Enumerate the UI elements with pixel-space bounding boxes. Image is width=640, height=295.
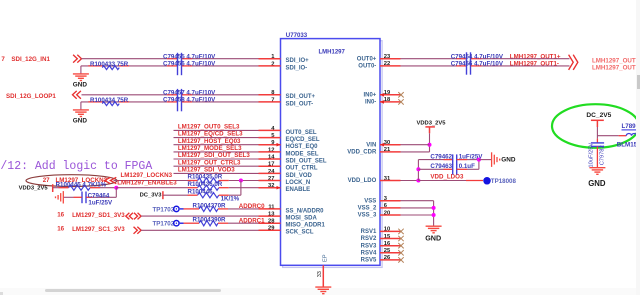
svg-text:LM1297_OUT_CTRL3: LM1297_OUT_CTRL3 bbox=[178, 159, 241, 166]
svg-text:16: 16 bbox=[57, 212, 64, 219]
no-connect pin 15 bbox=[398, 236, 403, 241]
svg-text:9/12: Add logic to FPGA: 9/12: Add logic to FPGA bbox=[0, 160, 152, 173]
wire junction down to capacitor C79464 bbox=[115, 188, 117, 198]
svg-text:R100433 75R: R100433 75R bbox=[90, 61, 129, 68]
pin stub pin 28 bbox=[259, 222, 281, 224]
svg-text:LM1297_HOST_EQ03: LM1297_HOST_EQ03 bbox=[178, 138, 241, 145]
inductor L789 BLM15A ferrite bead bbox=[626, 133, 640, 135]
svg-text:VDD_LDO: VDD_LDO bbox=[348, 178, 377, 184]
wire DC_2V5 to inductor bbox=[597, 135, 618, 137]
no-connect pin 16 bbox=[398, 243, 403, 248]
pin stub pin 14 bbox=[259, 158, 281, 160]
svg-text:EP: EP bbox=[322, 254, 328, 262]
pin stub pin 7 bbox=[259, 101, 281, 103]
pin stub pin 4 bbox=[259, 129, 281, 131]
no-connect pin 26 bbox=[398, 257, 403, 262]
pin stub pin 2 bbox=[259, 65, 281, 67]
svg-text:DC_2V5: DC_2V5 bbox=[586, 112, 611, 119]
wire cap to pin 1 bbox=[192, 58, 259, 60]
svg-text:TP1703: TP1703 bbox=[153, 206, 175, 213]
wire R100445 to junction bbox=[100, 187, 116, 189]
svg-text:TP18008: TP18008 bbox=[491, 178, 517, 185]
svg-text:VSS: VSS bbox=[364, 198, 376, 204]
resistor R100445 4.7K/1% bbox=[69, 185, 91, 190]
input arrow pin 32 bbox=[277, 186, 281, 190]
pin stub pin 22 bbox=[380, 65, 401, 67]
svg-text:SCK_SCL: SCK_SCL bbox=[286, 230, 314, 236]
svg-text:SDI_IO+: SDI_IO+ bbox=[286, 58, 310, 64]
wire LM1297_MODE_SEL3 to pin 12 bbox=[174, 151, 259, 153]
wire LOCKN3 to resistor bbox=[114, 180, 188, 182]
svg-text:R100436 0R: R100436 0R bbox=[188, 181, 223, 188]
svg-text:SDI_12G_LOOP1: SDI_12G_LOOP1 bbox=[6, 93, 56, 100]
ground bbox=[426, 226, 442, 233]
svg-text:IN0-: IN0- bbox=[365, 100, 376, 106]
pin stub pin 26 bbox=[380, 259, 401, 261]
resistor R100434 75R bbox=[102, 102, 119, 106]
svg-text:LMH1297: LMH1297 bbox=[319, 49, 346, 55]
wire ADDRC0 to pin 11 bbox=[228, 208, 259, 210]
svg-text:ENABLE: ENABLE bbox=[286, 187, 311, 193]
capacitor C79458 4.7uF/10V bbox=[167, 101, 178, 103]
pin stub pin 31 bbox=[380, 180, 401, 182]
svg-text:LM1297_SDI_VOD3: LM1297_SDI_VOD3 bbox=[178, 167, 235, 174]
wire cap to pin 2 bbox=[192, 65, 259, 67]
pin stub pin 5 bbox=[259, 137, 281, 139]
pin stub pin 6 bbox=[380, 207, 401, 209]
input arrow pin 30 bbox=[380, 143, 384, 147]
ground bbox=[80, 66, 82, 74]
node LM1297_LOCKN3 circled annotation bbox=[26, 175, 117, 187]
wire LM1297_HOST_EQ03 to pin 9 bbox=[174, 144, 259, 146]
svg-text:VDD_CDR: VDD_CDR bbox=[347, 150, 377, 156]
no-connect pin 19 bbox=[398, 92, 403, 97]
wire SD1 to pin 13 bbox=[141, 215, 258, 217]
svg-text:LOCK_N: LOCK_N bbox=[286, 180, 311, 186]
ground bbox=[589, 168, 605, 175]
resistor R100439 0R bbox=[199, 221, 218, 226]
wire LM1297_OUT0_SEL3 to pin 4 bbox=[174, 129, 259, 131]
svg-text:LM1297_LOCKN3: LM1297_LOCKN3 bbox=[121, 172, 173, 179]
pin stub EP bbox=[322, 265, 324, 287]
wire ADDRC1 to pin 28 bbox=[228, 222, 259, 224]
wire SDI_IO+ row bbox=[82, 58, 168, 60]
input arrow pin 19 bbox=[380, 93, 384, 97]
annotation green ellipse bbox=[552, 104, 639, 148]
svg-text:DC_3V3: DC_3V3 bbox=[140, 192, 163, 198]
svg-text:SDI_OUT_SEL: SDI_OUT_SEL bbox=[286, 158, 327, 164]
pin stub pin 3 bbox=[380, 200, 401, 202]
wire VDD_LDO3 to test point bbox=[418, 180, 466, 182]
svg-text:GND: GND bbox=[588, 179, 606, 188]
wire LM1297_SDI_OUT_SEL3 to pin 14 bbox=[174, 158, 259, 160]
svg-text:OUT0-: OUT0- bbox=[358, 64, 376, 70]
pin stub pin 13 bbox=[259, 215, 281, 217]
svg-text:OUT0+: OUT0+ bbox=[357, 56, 377, 62]
svg-text:R100446: R100446 bbox=[188, 188, 214, 195]
pin stub pin 12 bbox=[259, 151, 281, 153]
svg-text:R1004370R: R1004370R bbox=[193, 202, 227, 209]
wire caps right to gnd bbox=[478, 160, 480, 170]
wire pin 22 to capacitor bbox=[401, 65, 457, 67]
svg-text:MISO_ADDR1: MISO_ADDR1 bbox=[286, 223, 326, 229]
pin stub pin 11 bbox=[259, 208, 281, 210]
pin stub pin 27 bbox=[259, 180, 281, 182]
junction VSS_2 bbox=[432, 206, 436, 210]
capacitor C79456 4.7uF/10V bbox=[456, 65, 467, 67]
svg-text:LM1297_SD1_3V3: LM1297_SD1_3V3 bbox=[72, 212, 125, 219]
wire DC_3V3 to R100446 bbox=[163, 194, 188, 196]
no-connect pin 10 bbox=[398, 229, 403, 234]
svg-text:SS_N/ADDR0: SS_N/ADDR0 bbox=[286, 208, 325, 214]
svg-text:C79782: C79782 bbox=[599, 145, 605, 165]
pin stub pin 9 bbox=[259, 144, 281, 146]
junction caps gnd bbox=[477, 158, 481, 162]
svg-text:GND: GND bbox=[73, 81, 88, 88]
pin stub pin 23 bbox=[380, 58, 401, 60]
pin stub pin 30 bbox=[380, 144, 401, 146]
svg-text:16: 16 bbox=[57, 226, 64, 233]
svg-text:R100445 4.7K/1%: R100445 4.7K/1% bbox=[56, 181, 107, 188]
capacitor C79463 0.1uF bbox=[418, 168, 443, 170]
svg-text:OUT_CTRL: OUT_CTRL bbox=[286, 166, 318, 172]
svg-text:GND: GND bbox=[73, 117, 88, 124]
svg-text:GND: GND bbox=[425, 234, 441, 243]
svg-text:SDI_IO-: SDI_IO- bbox=[286, 65, 308, 71]
svg-text:HOST_EQ0: HOST_EQ0 bbox=[286, 144, 319, 150]
pin stub pin 25 bbox=[380, 252, 401, 254]
pin stub pin 10 bbox=[380, 230, 401, 232]
svg-text:LM1297_OUT0_SEL3: LM1297_OUT0_SEL3 bbox=[178, 124, 240, 131]
svg-text:LMH1297_OUT1-: LMH1297_OUT1- bbox=[592, 65, 640, 72]
resistor R100433 75R bbox=[102, 66, 119, 70]
wire junction to R100436 bbox=[116, 187, 187, 189]
junction LOCKN3 pullup bbox=[239, 179, 243, 183]
pin stub pin 32 bbox=[259, 187, 281, 189]
svg-text:RSV3: RSV3 bbox=[361, 243, 377, 249]
wire pin 20 VSS_3 bbox=[401, 214, 434, 216]
svg-text:SDI_VOD: SDI_VOD bbox=[286, 173, 313, 179]
svg-text:1K/1%: 1K/1% bbox=[221, 195, 240, 202]
wire cap to pin 8 bbox=[192, 94, 259, 96]
svg-text:L789: L789 bbox=[622, 123, 637, 130]
svg-text:TP1702: TP1702 bbox=[153, 221, 175, 228]
wire pin 30 to junction bbox=[401, 144, 430, 146]
svg-text:LM1297_MODE_SEL3: LM1297_MODE_SEL3 bbox=[178, 145, 242, 152]
wire to off-page connector OUT1- bbox=[482, 65, 570, 67]
wire SDI_IO- row from gnd tee bbox=[81, 65, 167, 67]
resistor R100437 0R bbox=[199, 206, 218, 211]
resistor R100435 0R bbox=[198, 178, 219, 183]
svg-text:VSS_3: VSS_3 bbox=[358, 213, 377, 219]
svg-text:LMH1297_OUT1+: LMH1297_OUT1+ bbox=[592, 57, 640, 64]
svg-text:R100435 0R: R100435 0R bbox=[188, 174, 223, 181]
wire DC_2V5 down bbox=[596, 127, 598, 139]
test point TP18008 bbox=[483, 177, 491, 185]
horizontal scrollbar bbox=[0, 288, 640, 295]
wire VDD3_2V5 down to pins 30/21 bbox=[429, 133, 431, 152]
pin stub pin 21 bbox=[380, 151, 401, 153]
wire pin 3 VSS bbox=[401, 200, 434, 202]
svg-text:VDD3_2V5: VDD3_2V5 bbox=[417, 121, 447, 127]
junction VSS_3 bbox=[432, 213, 436, 217]
op-amp U77033 LMH1297 IC body bbox=[283, 41, 383, 268]
capacitor C79457 4.7uF/10V bbox=[167, 94, 178, 96]
svg-text:LMH1297_ENABLE3: LMH1297_ENABLE3 bbox=[117, 179, 177, 186]
svg-text:27: 27 bbox=[43, 177, 50, 184]
svg-text:EQ/CD_SEL: EQ/CD_SEL bbox=[286, 137, 320, 143]
pin stub pin 24 bbox=[259, 172, 281, 174]
capacitor C79454 4.7uF/10V bbox=[456, 58, 467, 60]
wire cap rail vertical bbox=[417, 160, 419, 181]
wire resistor to pin 27 bbox=[229, 180, 259, 182]
pin stub pin 17 bbox=[259, 165, 281, 167]
svg-text:LM1297_SDI_OUT_SEL3: LM1297_SDI_OUT_SEL3 bbox=[178, 152, 250, 159]
capacitor C79464 1uF/25V bbox=[82, 192, 86, 204]
wire SC1 to pin 29 bbox=[141, 229, 258, 231]
vertical scrollbar bbox=[636, 0, 640, 295]
pin stub pin 20 bbox=[380, 214, 401, 216]
wire pin 23 to capacitor bbox=[401, 58, 457, 60]
wire VDD3_2V5 to R100445 bbox=[53, 187, 59, 189]
wire pin 21 to junction bbox=[401, 151, 430, 153]
junction VIN/VDD_CDR bbox=[428, 143, 432, 147]
capacitor C79462 1uF/25V bbox=[418, 159, 443, 161]
junction VDD_LDO3 at cap rail bbox=[416, 179, 420, 183]
svg-text:VDD_LDO3: VDD_LDO3 bbox=[430, 173, 464, 180]
pin stub pin 16 bbox=[380, 245, 401, 247]
wire pin 31 VDD_LDO3 bbox=[401, 180, 419, 182]
ground bbox=[315, 287, 331, 294]
svg-text:RSV2: RSV2 bbox=[361, 236, 377, 242]
wire LM1297_SDI_VOD3 to pin 24 bbox=[174, 172, 259, 174]
wire LM1297_OUT_CTRL3 to pin 17 bbox=[174, 165, 259, 167]
no-connect pin 18 bbox=[398, 99, 403, 104]
wire resistor to pin 32 bbox=[229, 187, 259, 189]
svg-text:IN0+: IN0+ bbox=[363, 92, 376, 98]
svg-text:MOSI_SDA: MOSI_SDA bbox=[286, 216, 318, 222]
resistor R100436 0R bbox=[198, 185, 219, 190]
ground bbox=[80, 102, 82, 110]
wire to off-page connector OUT1+ bbox=[482, 58, 570, 60]
scrollbar corner mark bbox=[0, 292, 3, 295]
wire SDI_OUT+ row bbox=[82, 94, 168, 96]
svg-text:C79464: C79464 bbox=[88, 192, 110, 199]
resistor R100446 1K/1% bbox=[198, 193, 219, 198]
svg-text:R1004390R: R1004390R bbox=[193, 217, 227, 224]
junction cap rail bbox=[416, 167, 420, 171]
svg-text:OUT0_SEL: OUT0_SEL bbox=[286, 130, 317, 136]
capacitor C79455 4.7uF/10V bbox=[167, 58, 178, 60]
pin stub pin 1 bbox=[259, 58, 281, 60]
wire SDI_OUT- row from gnd tee bbox=[81, 101, 167, 103]
pin stub pin 8 bbox=[259, 94, 281, 96]
svg-text:1uF/25V: 1uF/25V bbox=[88, 200, 113, 207]
svg-text:VSS_2: VSS_2 bbox=[358, 206, 377, 212]
svg-text:VDD3_2V5: VDD3_2V5 bbox=[19, 185, 49, 191]
capacitor C79782 10uF/25V bbox=[591, 143, 604, 147]
wire LM1297_EQ/CD_SEL3 to pin 5 bbox=[174, 137, 259, 139]
wire pin 6 VSS_2 bbox=[401, 207, 434, 209]
svg-text:MODE_SEL: MODE_SEL bbox=[286, 151, 319, 157]
wire R100446 up to LOCKN3 junction bbox=[229, 194, 241, 196]
svg-text:RSV5: RSV5 bbox=[361, 258, 377, 264]
svg-text:RSV4: RSV4 bbox=[361, 250, 377, 256]
pin stub pin 18 bbox=[380, 101, 401, 103]
input arrow pin 18 bbox=[380, 100, 384, 104]
ground bbox=[492, 152, 500, 167]
pin stub pin 15 bbox=[380, 238, 401, 240]
ground bbox=[63, 196, 73, 198]
svg-text:C79463: C79463 bbox=[430, 163, 452, 170]
svg-text:GND: GND bbox=[501, 157, 516, 164]
svg-text:VIN: VIN bbox=[366, 142, 376, 148]
pin stub pin 29 bbox=[259, 229, 281, 231]
svg-text:LM1297_EQ/CD_SEL3: LM1297_EQ/CD_SEL3 bbox=[178, 131, 243, 138]
svg-text:LM1297_SC1_3V3: LM1297_SC1_3V3 bbox=[72, 226, 125, 233]
svg-text:SDI_12G_IN1: SDI_12G_IN1 bbox=[11, 56, 50, 63]
svg-text:C79462: C79462 bbox=[430, 153, 452, 160]
svg-text:U77033: U77033 bbox=[286, 32, 308, 39]
junction ENABLE RC bbox=[114, 186, 118, 190]
capacitor C79456 4.7uF/10V bbox=[167, 65, 178, 67]
input arrow pin 9 bbox=[277, 143, 281, 147]
svg-text:10uF/25V: 10uF/25V bbox=[589, 143, 595, 168]
svg-text:R100434 75R: R100434 75R bbox=[90, 97, 129, 104]
wire cap to pin 7 bbox=[192, 101, 259, 103]
svg-text:33: 33 bbox=[317, 271, 323, 277]
svg-text:SDI_OUT+: SDI_OUT+ bbox=[286, 94, 316, 100]
svg-text:SDI_OUT-: SDI_OUT- bbox=[286, 101, 314, 107]
no-connect pin 25 bbox=[398, 250, 403, 255]
off-page connector LMH1297_OUT1+ / OUT1- pair bbox=[569, 55, 578, 70]
wire cap to gnd bbox=[596, 146, 598, 167]
pin stub pin 19 bbox=[380, 94, 401, 96]
svg-text:0.1uF: 0.1uF bbox=[459, 163, 475, 170]
svg-text:7: 7 bbox=[1, 56, 5, 63]
svg-text:RSV1: RSV1 bbox=[361, 229, 377, 235]
